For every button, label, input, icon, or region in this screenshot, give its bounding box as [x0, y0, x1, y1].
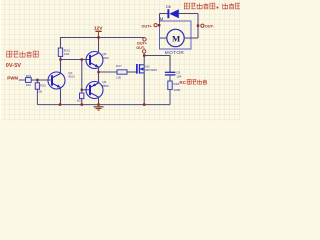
junction Q6 ground / bus	[97, 103, 99, 105]
junction push-pull output	[97, 71, 99, 73]
svg-text:104: 104	[176, 75, 181, 79]
wire down to Q6 base	[81, 60, 83, 90]
wire 12V rail	[61, 38, 145, 49]
wire right riser to diode	[197, 14, 199, 39]
node junction R21/R22	[36, 79, 38, 81]
svg-text:IRF3205: IRF3205	[145, 68, 157, 72]
capacitor C9	[169, 56, 171, 73]
resistor R23	[58, 48, 62, 56]
wire Q6 collector to ground	[98, 97, 100, 101]
svg-text:RC: RC	[179, 80, 186, 85]
wire PWM input	[19, 79, 53, 81]
diode D6 fast recovery	[167, 9, 169, 18]
junction R24 / ground bus	[81, 103, 83, 105]
svg-text:R27: R27	[116, 64, 122, 68]
wire Q4 emitter	[60, 87, 62, 104]
motor M circle	[167, 29, 184, 46]
junction MOSFET drain node	[143, 54, 145, 56]
junction rail/12V/Q5	[97, 36, 99, 38]
svg-text:8050: 8050	[102, 56, 109, 60]
svg-text:OUT-: OUT-	[136, 46, 146, 50]
pin circle OUT+ left	[154, 24, 157, 27]
resistor R24	[81, 90, 83, 93]
svg-text:100K: 100K	[173, 88, 181, 92]
ground symbol Q6	[98, 101, 100, 107]
junction MOSFET source / ground bus	[143, 103, 145, 105]
resistor R28	[168, 81, 172, 90]
junction Q6 base / R24	[81, 89, 83, 91]
MOSFET M1 IRF3205	[136, 64, 138, 74]
wire motor right lead	[184, 37, 198, 39]
svg-text:M: M	[160, 17, 164, 22]
svg-text:100: 100	[116, 76, 121, 80]
svg-text:OUT+: OUT+	[142, 24, 153, 28]
svg-text:0V-5V: 0V-5V	[6, 63, 22, 69]
wire R28 to ground bus	[169, 90, 171, 105]
resistor R22	[36, 80, 38, 83]
svg-text:102: 102	[26, 83, 31, 87]
svg-text:12V: 12V	[94, 25, 103, 30]
pin OUT- (drain side)	[143, 50, 146, 53]
wire diode top	[160, 13, 169, 15]
svg-text:R21: R21	[26, 74, 32, 78]
transistor Q4	[48, 72, 65, 89]
motor part boundary	[160, 21, 192, 49]
wire R27 to gate	[127, 71, 137, 73]
pin circle OUT- right	[201, 24, 204, 27]
wire gate drive	[99, 71, 118, 73]
junction base node tap	[81, 58, 83, 60]
power 12V	[95, 30, 101, 32]
svg-text:R22: R22	[40, 84, 46, 88]
annotation text 单片机输出	[7, 51, 12, 57]
resistor R27	[117, 70, 127, 74]
svg-text:MOTOR: MOTOR	[165, 50, 185, 55]
junction motor right pin	[197, 24, 199, 26]
wire motor left lead	[160, 37, 167, 39]
svg-text:102: 102	[64, 52, 69, 56]
resistor R21	[26, 78, 32, 83]
wire Q4 collector	[60, 60, 62, 74]
pin OUT+ (12V side)	[143, 38, 146, 41]
wire Q5 collector to rail	[98, 38, 100, 54]
wire drain node to snubber	[144, 56, 170, 66]
wire base drive node	[61, 59, 91, 61]
svg-text:8550: 8550	[102, 84, 109, 88]
wire Q5 emitter down	[98, 67, 100, 83]
transistor Q5	[86, 52, 103, 69]
svg-text:9013: 9013	[68, 75, 75, 79]
svg-text:OUT+: OUT+	[137, 41, 148, 45]
wire MOSFET drain-source vertical	[143, 56, 145, 105]
junction R23 / Q4 collector	[59, 58, 61, 60]
svg-text:OUT-: OUT-	[205, 25, 215, 29]
wire ground bus	[37, 104, 170, 106]
svg-text:M: M	[172, 33, 180, 43]
wire left riser to diode	[159, 14, 161, 22]
svg-text:D6: D6	[166, 4, 172, 9]
svg-text:103: 103	[77, 99, 82, 103]
junction Q4 emitter / ground bus	[59, 103, 61, 105]
wire R22 to ground bus	[36, 89, 38, 104]
wire to Q6 base	[82, 89, 90, 91]
grid background	[0, 0, 240, 121]
annotation text 吸收二极管，快恢复	[184, 3, 189, 9]
transistor Q6	[86, 82, 103, 99]
svg-text:PWM: PWM	[7, 76, 18, 81]
junction motor left pin	[158, 24, 160, 26]
